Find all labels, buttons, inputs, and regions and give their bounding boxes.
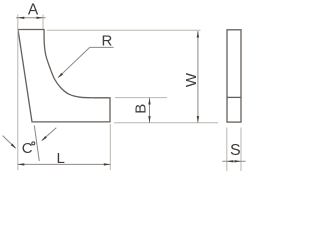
svg-text:B: B	[132, 104, 149, 114]
dimension W line	[197, 31, 199, 123]
svg-text:S: S	[230, 142, 241, 159]
extension line bottom horizontal W B	[114, 122, 218, 124]
dimension A text	[28, 2, 39, 19]
part front view outline	[18, 30, 110, 122]
radius R text	[102, 33, 113, 50]
dimension S line	[222, 160, 245, 162]
extension line A right vertical	[42, 15, 44, 30]
svg-text:R: R	[102, 33, 113, 50]
dimension A line	[16, 17, 46, 19]
dimension L text	[57, 150, 65, 167]
extension line B top	[115, 97, 167, 99]
dimension S text	[230, 142, 241, 159]
extension line left vertical	[17, 15, 19, 171]
extension line S right	[240, 128, 242, 172]
svg-text:L: L	[57, 150, 65, 167]
svg-text:C: C	[22, 140, 33, 157]
svg-text:A: A	[28, 2, 39, 19]
angle C text	[22, 140, 35, 157]
angle C leader left	[3, 136, 18, 150]
side view base line	[227, 96, 241, 98]
svg-text:W: W	[183, 72, 200, 87]
extension line top horizontal W	[47, 29, 201, 31]
extension line L right vertical	[109, 124, 111, 170]
angle C leader right	[40, 128, 56, 142]
extension line slanted edge	[34, 126, 39, 162]
dimension B text	[132, 104, 149, 114]
radius R leader	[57, 47, 114, 79]
dimension L line	[18, 163, 111, 165]
dimension W text	[183, 72, 200, 87]
dimension B line	[148, 98, 150, 123]
extension line S left	[226, 128, 228, 172]
part side view rectangle	[227, 30, 241, 122]
